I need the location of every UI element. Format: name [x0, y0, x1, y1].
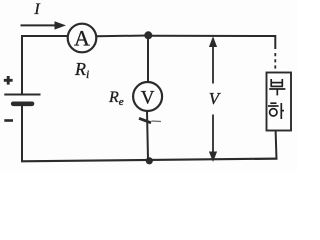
wire right vertical lower	[275, 131, 278, 160]
stray tick mark on voltmeter lead	[139, 118, 161, 123]
load box (부하)	[267, 73, 292, 131]
wire from ammeter to node	[96, 35, 148, 38]
V measurement arrow (double-headed)	[209, 36, 222, 162]
svg-text:I: I	[33, 1, 40, 18]
wire right vertical upper (partly faint/dashed in scan)	[274, 35, 276, 72]
wire left vertical lower	[21, 105, 23, 163]
wire left vertical upper	[21, 35, 23, 94]
wire top-left segment	[21, 35, 68, 37]
node top junction	[144, 31, 152, 39]
svg-text:V: V	[209, 89, 222, 108]
wire voltmeter branch upper	[147, 35, 149, 83]
hangul 하	[268, 103, 284, 119]
wire bottom	[21, 159, 278, 162]
svg-text:Re: Re	[108, 89, 124, 108]
current arrow I	[21, 1, 67, 30]
battery B1	[4, 76, 41, 121]
wire from node to top-right corner	[148, 35, 276, 37]
svg-text:A: A	[74, 26, 90, 51]
node bottom junction	[146, 157, 153, 164]
wire voltmeter branch lower	[147, 111, 148, 159]
svg-text:Ri: Ri	[74, 59, 89, 81]
ammeter A	[68, 24, 97, 53]
voltmeter V	[133, 82, 162, 111]
hangul 부	[269, 79, 285, 95]
svg-text:V: V	[141, 88, 155, 109]
